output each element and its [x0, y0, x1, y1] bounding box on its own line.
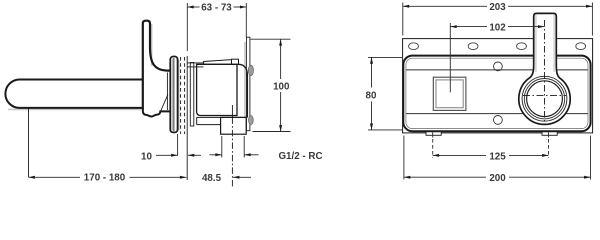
svg-text:100: 100	[273, 81, 290, 92]
svg-text:125: 125	[489, 151, 506, 162]
svg-text:48.5: 48.5	[202, 173, 222, 184]
svg-text:200: 200	[489, 173, 506, 184]
svg-text:170 - 180: 170 - 180	[84, 172, 126, 183]
svg-text:102: 102	[489, 23, 506, 34]
svg-text:80: 80	[366, 90, 377, 101]
svg-text:203: 203	[489, 2, 506, 13]
svg-text:G1/2 - RC: G1/2 - RC	[278, 151, 322, 162]
svg-text:63 - 73: 63 - 73	[201, 2, 232, 13]
svg-text:10: 10	[141, 152, 152, 163]
